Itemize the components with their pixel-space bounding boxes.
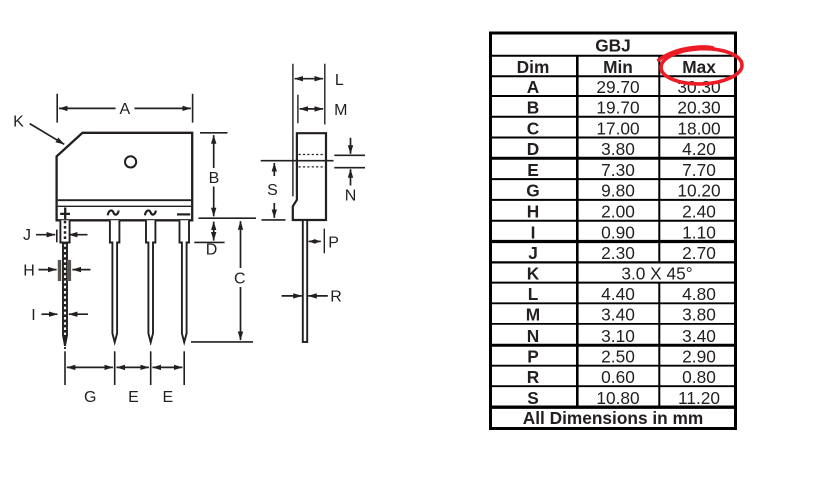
red annotation ellipse around Max [660, 47, 742, 85]
pin 1 dashed centerline [64, 221, 67, 344]
svg-text:10.20: 10.20 [677, 181, 720, 201]
svg-text:30.30: 30.30 [677, 77, 720, 97]
svg-text:4.40: 4.40 [601, 284, 635, 304]
dimension M double arrow [300, 108, 324, 110]
row line L/M [489, 302, 737, 304]
S arrow down segment [273, 203, 275, 218]
svg-text:2.50: 2.50 [601, 347, 635, 367]
row line D/E thick [489, 157, 737, 160]
dimension A extension line right [192, 94, 194, 123]
row line G/H [489, 199, 737, 201]
svg-text:R: R [330, 289, 342, 306]
pin 1 tip dot [64, 347, 66, 349]
svg-text:L: L [528, 284, 539, 304]
R arrow right [282, 295, 302, 297]
svg-text:2.70: 2.70 [682, 243, 716, 263]
S bottom tick [262, 219, 286, 221]
pin 2 outline [110, 220, 120, 342]
svg-text:0.90: 0.90 [601, 222, 635, 242]
svg-text:4.20: 4.20 [682, 139, 716, 159]
svg-text:2.90: 2.90 [682, 347, 716, 367]
G/E/E extension line pin3 [150, 351, 152, 385]
row line H/I [489, 220, 737, 222]
G/E/E extension line pin4 [183, 351, 185, 385]
pin 1 outline [60, 220, 69, 345]
L extension line left [292, 64, 294, 197]
I arrow right [42, 313, 58, 315]
minus terminal mark [177, 213, 190, 215]
row line I/J thick [489, 240, 737, 243]
svg-text:C: C [234, 270, 246, 287]
svg-text:11.20: 11.20 [678, 388, 720, 408]
dotted line lower [299, 166, 326, 168]
svg-text:E: E [527, 160, 539, 180]
dimension B top tick [200, 132, 228, 134]
dotted line upper [299, 154, 326, 156]
svg-text:G: G [84, 389, 96, 406]
column divider 2 lower [658, 283, 660, 408]
svg-text:19.70: 19.70 [596, 98, 639, 118]
svg-text:3.40: 3.40 [682, 326, 716, 346]
svg-text:3.80: 3.80 [601, 139, 635, 159]
svg-text:E: E [162, 389, 173, 406]
N tick lower [334, 167, 365, 169]
side lead [303, 220, 307, 342]
row line P/R [489, 365, 737, 367]
pin 1 tip fill [63, 335, 67, 346]
svg-text:18.00: 18.00 [677, 118, 720, 138]
S arrow up segment [273, 163, 275, 176]
svg-text:Dim: Dim [517, 57, 550, 77]
row line B/C [489, 116, 737, 118]
table outer border [491, 33, 736, 429]
svg-text:N: N [345, 187, 357, 204]
N arrow down [350, 138, 352, 154]
svg-text:P: P [328, 234, 339, 251]
dimension G double arrow [67, 366, 113, 368]
svg-text:2.00: 2.00 [601, 202, 635, 222]
row line E/G [489, 178, 737, 180]
svg-text:7.30: 7.30 [601, 160, 635, 180]
svg-text:3.10: 3.10 [601, 326, 635, 346]
AC terminal mark 2 [145, 210, 156, 215]
B arrow up segment [213, 135, 215, 168]
H reference bar left [58, 260, 61, 281]
row line Dim/A [489, 75, 737, 77]
row line A/B [489, 95, 737, 97]
column divider 1 [576, 56, 579, 407]
svg-text:D: D [527, 139, 539, 159]
svg-text:4.80: 4.80 [682, 284, 716, 304]
pin 4 outline [180, 220, 190, 342]
G/E/E extension line pin1 [64, 351, 66, 385]
svg-text:7.70: 7.70 [682, 160, 716, 180]
D lower tick [194, 241, 224, 243]
N tick upper [334, 154, 365, 156]
svg-text:R: R [527, 367, 540, 387]
body slot line upper [58, 199, 191, 201]
svg-text:2.40: 2.40 [682, 202, 716, 222]
svg-text:1.10: 1.10 [682, 222, 716, 242]
svg-text:L: L [335, 72, 344, 89]
H reference bar right [67, 260, 71, 281]
dimension A arrow right segment [135, 107, 191, 109]
H arrow left [72, 269, 90, 271]
svg-text:B: B [209, 170, 220, 187]
side view body outline [293, 133, 326, 220]
M extension line left [297, 95, 299, 124]
svg-text:H: H [23, 263, 35, 280]
P extension line [323, 229, 325, 254]
svg-text:M: M [526, 305, 540, 325]
svg-text:H: H [527, 202, 539, 222]
I arrow left [69, 313, 88, 315]
G/E/E extension line pin2 [114, 351, 116, 385]
dimension L double arrow [295, 78, 324, 80]
svg-text:GBJ: GBJ [595, 36, 631, 56]
svg-text:A: A [527, 77, 540, 97]
B arrow down segment [213, 187, 215, 217]
K chamfer leader arrow [30, 124, 64, 145]
svg-text:G: G [526, 181, 539, 201]
row line M/N [489, 323, 737, 325]
dimension A extension line left [56, 94, 58, 123]
svg-text:0.60: 0.60 [601, 367, 635, 387]
C arrow up segment [240, 221, 242, 268]
C arrow down segment [240, 287, 242, 340]
svg-text:17.00: 17.00 [596, 118, 639, 138]
body slot line lower [58, 205, 191, 207]
svg-text:K: K [527, 263, 540, 283]
J arrow right [36, 234, 55, 236]
svg-text:S: S [527, 388, 539, 408]
R arrow left [308, 295, 328, 297]
svg-text:3.80: 3.80 [682, 305, 716, 325]
column divider 2 upper [658, 56, 660, 263]
svg-text:J: J [528, 243, 538, 263]
shared tick body bottom [199, 217, 257, 219]
plus terminal mark [60, 208, 70, 220]
row line J/K [489, 261, 737, 263]
red annotation overlap stroke [659, 47, 714, 60]
svg-text:N: N [527, 326, 539, 346]
svg-text:20.30: 20.30 [677, 98, 720, 118]
row line GBJ/Dim [489, 55, 737, 57]
svg-text:3.0 X 45°: 3.0 X 45° [621, 263, 692, 283]
svg-text:D: D [206, 242, 218, 259]
svg-text:All Dimensions in mm: All Dimensions in mm [523, 408, 704, 428]
svg-text:2.30: 2.30 [601, 243, 635, 263]
row line K/L [489, 282, 737, 284]
svg-text:I: I [31, 307, 35, 324]
N arrow up [350, 169, 352, 185]
AC terminal mark 1 [108, 210, 119, 215]
svg-text:9.80: 9.80 [601, 181, 635, 201]
row line R/S [489, 385, 737, 387]
front view body outline with chamfer [57, 133, 193, 221]
svg-text:B: B [527, 98, 539, 118]
dimension E2 double arrow [153, 366, 183, 368]
J arrow left [69, 234, 88, 236]
svg-text:0.80: 0.80 [682, 367, 716, 387]
L extension line right [324, 64, 326, 125]
dimension A arrow left segment [59, 107, 116, 109]
svg-text:10.80: 10.80 [596, 388, 639, 408]
row line N/P thick [489, 344, 737, 347]
svg-text:P: P [527, 347, 539, 367]
svg-text:29.70: 29.70 [596, 77, 639, 97]
svg-text:E: E [128, 389, 139, 406]
svg-text:K: K [13, 114, 24, 131]
H arrow right [39, 269, 57, 271]
dimension E1 double arrow [117, 366, 149, 368]
svg-text:C: C [527, 118, 539, 138]
svg-text:J: J [23, 227, 31, 244]
svg-text:Min: Min [603, 57, 633, 77]
svg-text:3.40: 3.40 [601, 305, 635, 325]
dimension D double arrow [213, 222, 215, 241]
row line C/D [489, 137, 737, 139]
row line S/footer thick [489, 406, 737, 409]
mounting hole [125, 156, 136, 167]
svg-text:I: I [531, 222, 536, 242]
svg-text:A: A [119, 101, 130, 118]
svg-text:S: S [267, 182, 278, 199]
C bottom tick [191, 341, 253, 343]
S reference line [261, 160, 334, 162]
svg-text:M: M [334, 102, 347, 119]
pin 3 outline [146, 220, 155, 342]
svg-text:Max: Max [682, 57, 716, 77]
dimension P double arrow [309, 240, 321, 242]
J tick [56, 230, 58, 243]
